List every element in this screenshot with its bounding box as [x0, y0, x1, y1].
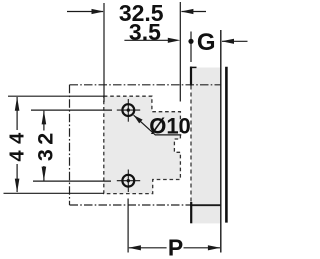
bottom hole center dot	[127, 179, 130, 182]
extension line right (32.5 / 3.5)	[179, 2, 181, 102]
panel top edge short segment	[190, 66, 197, 68]
top hole crosshair horizontal	[117, 109, 140, 111]
dimension 3.5 line and arrow	[124, 39, 176, 41]
svg-text:3.5: 3.5	[129, 19, 161, 45]
panel front face hidden segment (dashed)	[190, 86, 192, 203]
extension line left (32.5)	[103, 3, 105, 102]
measure point dot	[188, 39, 193, 44]
dimension P line left segment with arrow	[129, 247, 167, 249]
bottom hole crosshair vertical	[127, 170, 129, 193]
dimension 44 top extension line	[8, 95, 104, 97]
dimension P left extension line (below bottom hole)	[127, 199, 129, 253]
door outline (dash-dot) bottom edge	[70, 204, 191, 206]
dimension 44 line upper	[16, 97, 18, 130]
top hole crosshair vertical	[127, 99, 129, 122]
svg-text:32: 32	[34, 128, 58, 161]
dimension 32.5 right arrow	[182, 11, 207, 13]
top hole center dot	[127, 108, 130, 111]
bottom hole circle	[122, 175, 134, 187]
bottom hole crosshair horizontal	[117, 180, 140, 182]
door bottom edge over panel (solid)	[190, 204, 221, 206]
mounting plate outline (dashed) with fill	[104, 96, 181, 193]
hole diameter leader line	[134, 115, 182, 135]
dimension G right arrow	[222, 40, 248, 42]
top hole circle	[122, 104, 134, 116]
panel front face upper solid segment	[190, 67, 192, 86]
dimension 32 line lower	[43, 166, 45, 181]
measure point line at panel face	[190, 32, 192, 63]
dimension 32 line upper	[43, 111, 45, 131]
panel front face lower solid segment	[190, 202, 192, 223]
hole diameter leader arrow	[134, 115, 143, 123]
cabinet side panel fill	[191, 68, 221, 224]
panel outer right edge (thick)	[225, 67, 228, 223]
dimension 44 bottom extension line	[4, 192, 105, 194]
svg-text:44: 44	[6, 126, 28, 161]
dimension 32.5 left arrow	[67, 11, 103, 13]
svg-text:P: P	[168, 234, 183, 259]
door outline (dash-dot) left edge	[69, 85, 71, 205]
door outline (dash-dot) top edge	[70, 84, 221, 86]
panel inner right edge / extension line for G and P	[220, 30, 222, 253]
dimension 44 line lower	[16, 164, 18, 192]
dimension P line right segment with arrow	[184, 247, 221, 249]
svg-text:G: G	[197, 29, 216, 56]
dimension 32 bottom extension line	[33, 180, 111, 182]
svg-text:Ø10: Ø10	[149, 113, 191, 138]
dimension 32 top extension line	[31, 109, 112, 111]
